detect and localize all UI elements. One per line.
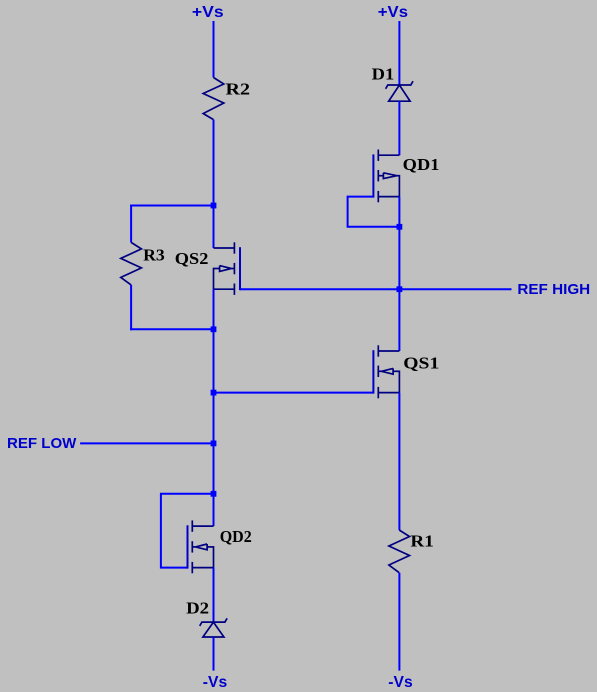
QS1 gate bar [372, 350, 374, 393]
transistor QD2 (NMOS) [192, 520, 213, 573]
QS1 body-source tie [398, 371, 400, 393]
node F junction (REF HIGH) [397, 286, 403, 292]
wire R3 bottom [130, 285, 132, 330]
zener diode D2 [200, 618, 227, 637]
svg-text:REF LOW: REF LOW [7, 436, 76, 452]
wire D2 to -Vs [213, 637, 215, 671]
QD2 channel segments [191, 520, 193, 531]
node D junction [211, 491, 217, 497]
svg-text:QD2: QD2 [220, 527, 252, 546]
svg-text:-Vs: -Vs [203, 674, 228, 691]
QS1 channel segments [377, 345, 379, 356]
QS2 gate bar [239, 247, 241, 290]
QD2 drain line [192, 525, 213, 527]
QS2 channel segments [233, 242, 235, 253]
zener diode D1 [386, 81, 413, 101]
transistor QS2 (mirrored NMOS) [214, 242, 235, 295]
QS2 body line + arrow [214, 268, 220, 270]
wire REF HIGH [240, 288, 512, 290]
wire QS1 source to R1 [398, 393, 400, 530]
wire +Vs to D1 [398, 21, 400, 85]
node REF LOW junction [211, 441, 217, 447]
wire R3 left top [130, 205, 132, 243]
svg-text:R1: R1 [410, 531, 433, 550]
resistor R3 [121, 242, 142, 285]
svg-text:D1: D1 [372, 64, 395, 83]
QS2 source line [214, 288, 235, 290]
node B junction [211, 326, 217, 332]
QS2 body-source tie [213, 268, 215, 290]
D2 triangle [203, 622, 224, 637]
svg-text:+Vs: +Vs [378, 4, 408, 21]
node A junction [211, 203, 217, 209]
svg-text:QS2: QS2 [175, 249, 209, 268]
resistor R2 [203, 78, 224, 120]
node E junction [397, 224, 403, 230]
svg-text:-Vs: -Vs [388, 674, 413, 691]
resistor R1 [389, 530, 410, 573]
wire node E to node F [398, 227, 400, 351]
svg-text:R3: R3 [143, 245, 165, 264]
QD2 body-source tie [213, 546, 215, 568]
D2 cathode bar with zener ticks [200, 618, 227, 626]
wire REF LOW [80, 442, 213, 444]
wire +Vs to R2 [213, 21, 215, 78]
QS2 drain line [214, 247, 235, 249]
QS1 body line + arrow [378, 370, 381, 372]
wire QD2 gate loop [161, 494, 214, 568]
wire QD2 source to D2 [213, 568, 215, 623]
transistor QS1 (NMOS) [378, 345, 399, 398]
wire QD1 gate loop [348, 197, 400, 227]
svg-text:QS1: QS1 [403, 354, 439, 373]
QD2 body line + arrow [192, 546, 195, 548]
QD1 body line + arrow [378, 175, 383, 177]
wire QD1 source to node E [398, 197, 400, 227]
wire QS2 source to node B [213, 289, 215, 392]
QD1 gate bar [372, 154, 374, 197]
wire node C to REF LOW node [213, 393, 215, 494]
wire node C to QS1 gate [214, 392, 374, 394]
wire node A to R3 top [130, 205, 213, 207]
svg-text:REF HIGH: REF HIGH [517, 282, 590, 298]
wire R2 to node A [213, 120, 215, 248]
QD1 channel segments [377, 150, 379, 161]
wire node D to QD2 drain [213, 494, 215, 526]
QD1 body-source tie [398, 175, 400, 197]
QD2 source line [192, 567, 213, 569]
wire R3 to node B [130, 328, 213, 330]
QD1 drain line [378, 154, 399, 156]
wire D1 to QD1 drain [398, 101, 400, 155]
QS1 drain line [378, 350, 399, 352]
D1 triangle [389, 85, 410, 101]
wire R1 to -Vs [398, 573, 400, 671]
QD2 gate bar [187, 525, 189, 568]
svg-text:D2: D2 [186, 598, 209, 617]
QS1 source line [378, 392, 399, 394]
transistor QD1 (NMOS) [378, 150, 399, 203]
svg-text:+Vs: +Vs [192, 4, 224, 21]
svg-text:QD1: QD1 [403, 155, 440, 174]
D1 cathode bar with zener ticks [386, 81, 413, 89]
node C junction (QS1 gate tee) [211, 390, 217, 396]
svg-text:R2: R2 [226, 80, 251, 99]
QD1 source line [378, 196, 399, 198]
